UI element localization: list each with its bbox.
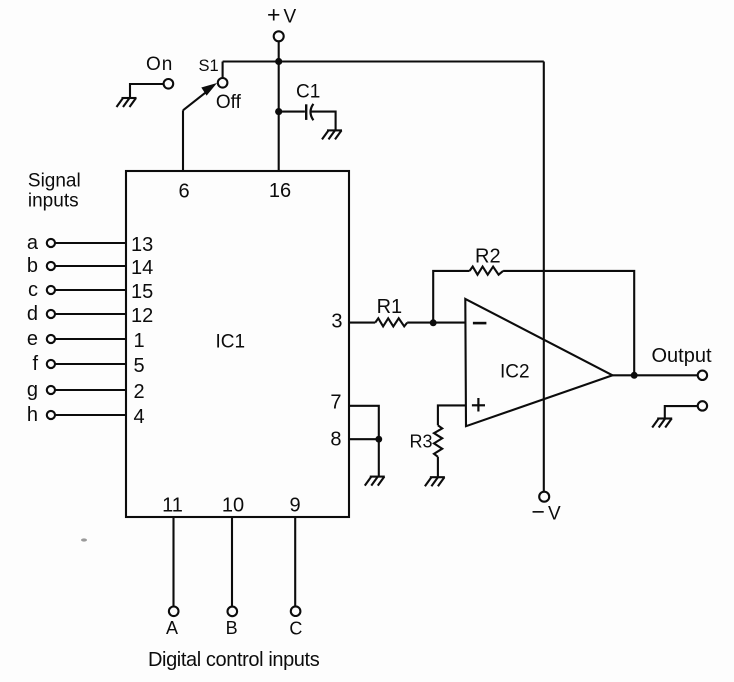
output terminal — [698, 371, 707, 380]
input terminal g — [47, 386, 55, 394]
svg-text:c: c — [28, 279, 38, 301]
wire noninverting input to R3 — [438, 405, 466, 425]
svg-text:12: 12 — [131, 305, 153, 327]
wire junction up to R2 — [433, 271, 469, 323]
svg-text:e: e — [27, 328, 38, 350]
input terminal c — [47, 286, 55, 294]
svg-text:C1: C1 — [296, 81, 320, 102]
input terminal b — [47, 262, 55, 270]
wire op-amp output — [613, 374, 698, 376]
svg-text:7: 7 — [330, 392, 341, 414]
svg-text:16: 16 — [269, 180, 291, 202]
svg-text:A: A — [166, 618, 178, 638]
svg-text:3: 3 — [331, 311, 342, 333]
svg-text:4: 4 — [134, 406, 145, 428]
switch S1 Off contact — [218, 78, 228, 88]
input terminal e — [47, 335, 55, 343]
svg-text:2: 2 — [134, 381, 145, 403]
wire pin 9 to terminal C — [294, 517, 296, 606]
wire input h to pin 4 — [55, 414, 126, 416]
svg-text:g: g — [27, 379, 38, 401]
svg-text:S1: S1 — [199, 57, 219, 75]
svg-text:Output: Output — [652, 345, 712, 367]
svg-text:B: B — [226, 618, 238, 638]
switch S1 arm — [183, 83, 217, 110]
svg-text:f: f — [32, 353, 38, 375]
wire input a to pin 13 — [55, 242, 126, 244]
ground (On contact) — [117, 98, 137, 107]
op-amp noninverting input marker — [472, 398, 485, 412]
wire +V rail — [223, 60, 544, 62]
op-amp IC2 — [465, 299, 612, 426]
svg-text:14: 14 — [131, 257, 153, 279]
wire pin 7 — [349, 406, 379, 439]
svg-text:15: 15 — [131, 281, 153, 303]
svg-text:9: 9 — [289, 495, 300, 517]
wire On contact to ground — [130, 84, 164, 98]
input terminal d — [47, 310, 55, 318]
resistor R3 — [434, 425, 442, 457]
wire pin 8 — [349, 438, 379, 440]
scan speck artifact — [81, 538, 87, 541]
resistor R1 — [375, 318, 407, 326]
svg-text:13: 13 — [131, 234, 153, 256]
svg-text:On: On — [146, 54, 173, 75]
svg-text:R3: R3 — [410, 431, 433, 451]
wire capacitor to ground — [311, 112, 336, 131]
wire R3 to ground — [437, 457, 439, 477]
svg-text:C: C — [289, 619, 302, 639]
wire input g to pin 2 — [55, 389, 126, 391]
wire C1 junction to capacitor — [279, 111, 305, 113]
svg-text:8: 8 — [330, 429, 341, 451]
wire S1 arm to pin 6 — [182, 110, 184, 171]
terminal C — [291, 606, 301, 616]
svg-text:Digital control inputs: Digital control inputs — [148, 649, 320, 671]
+V terminal — [274, 31, 284, 41]
wire output ground terminal — [665, 406, 698, 418]
ground (C1) — [322, 130, 342, 139]
terminal B — [228, 607, 238, 617]
op-amp inverting input marker — [473, 322, 487, 325]
svg-text:11: 11 — [162, 495, 183, 517]
output ground terminal — [698, 401, 707, 410]
wire input b to pin 14 — [55, 265, 126, 267]
svg-text:R2: R2 — [475, 245, 501, 267]
wire pin 10 to terminal B — [231, 517, 233, 607]
svg-text:Signal: Signal — [28, 170, 81, 191]
wire input e to pin 1 — [55, 338, 126, 340]
wire input f to pin 5 — [55, 363, 126, 365]
svg-text:IC2: IC2 — [500, 361, 530, 382]
input terminal f — [47, 360, 55, 368]
terminal A — [169, 607, 179, 617]
svg-text:h: h — [27, 404, 38, 426]
wire junction to ground — [378, 439, 380, 476]
wire pin 11 to terminal A — [172, 517, 174, 607]
-V terminal — [539, 492, 549, 502]
switch S1 On contact — [164, 79, 174, 89]
node output junction — [631, 372, 638, 379]
node C1 junction — [275, 108, 282, 115]
svg-text:6: 6 — [178, 181, 189, 203]
ground (pins 7/8) — [365, 477, 385, 486]
wire +V rail to -V terminal (op-amp supply) — [543, 62, 545, 492]
wire pin 3 to R1 — [349, 322, 375, 324]
wire R1 to inverting input — [407, 322, 465, 324]
node feedback junction — [430, 319, 437, 326]
svg-text:5: 5 — [134, 355, 145, 377]
ground (R3) — [425, 477, 445, 486]
resistor R2 — [470, 267, 504, 275]
node pins 7/8 junction — [375, 436, 382, 443]
svg-text:IC1: IC1 — [216, 331, 246, 352]
IC1 body — [126, 171, 349, 517]
svg-text:10: 10 — [222, 495, 244, 517]
wire R2 to output node — [503, 271, 634, 375]
svg-text:Off: Off — [216, 92, 242, 113]
svg-text:a: a — [27, 232, 39, 254]
svg-text:d: d — [27, 303, 38, 325]
wire input c to pin 15 — [55, 289, 126, 291]
wire rail to S1 Off contact — [222, 62, 224, 78]
svg-text:R1: R1 — [377, 296, 403, 318]
wire +V terminal to pin 16 — [278, 41, 280, 171]
svg-text:b: b — [27, 255, 38, 277]
input terminal h — [47, 411, 55, 419]
input terminal a — [47, 239, 55, 247]
node +V rail junction — [275, 58, 282, 65]
capacitor C1 — [306, 104, 313, 120]
wire input d to pin 12 — [55, 313, 126, 315]
svg-text:1: 1 — [134, 330, 145, 352]
svg-text:inputs: inputs — [28, 190, 79, 211]
ground (output) — [652, 419, 672, 428]
